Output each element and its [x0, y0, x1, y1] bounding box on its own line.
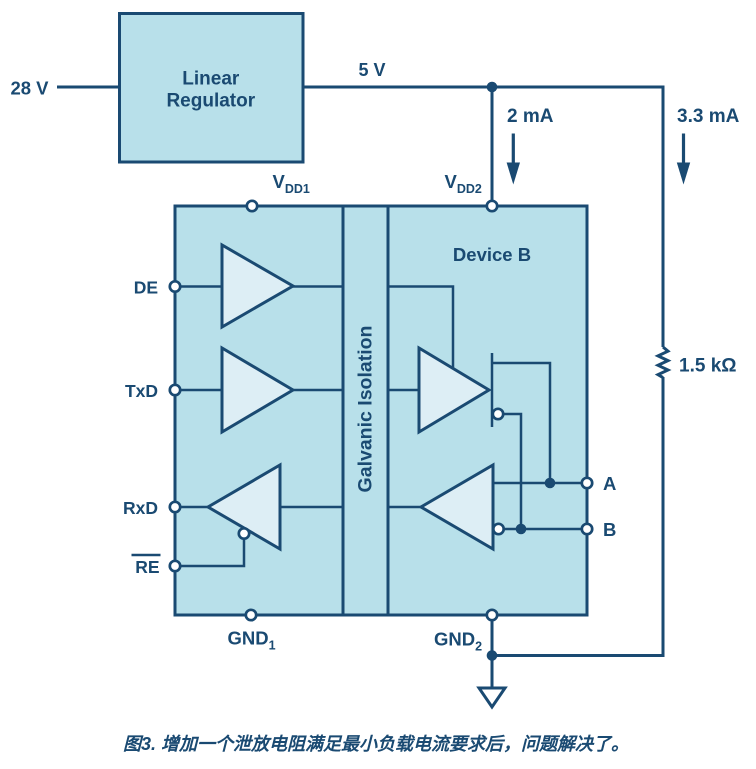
svg-text:1.5 kΩ: 1.5 kΩ — [679, 356, 737, 377]
arrow 2 mA — [507, 134, 520, 185]
bubble RxD enable — [239, 528, 249, 538]
wire barrier to driver enable with drop — [388, 287, 453, 369]
terminal TxD — [170, 385, 180, 395]
wire bleed branch bottom and return to GND2 — [492, 377, 663, 656]
terminal VDD1 — [247, 201, 257, 211]
wire driver Z output drop to B — [504, 414, 522, 529]
svg-text:RE: RE — [135, 557, 159, 577]
terminal DE — [170, 281, 180, 291]
isolator IC body Device B — [175, 206, 587, 615]
wire DE buffer to barrier — [293, 285, 343, 288]
driver right side — [419, 348, 489, 432]
terminal GND1 — [246, 610, 256, 620]
terminal B — [582, 524, 592, 534]
regulator box U1 Linear Regulator — [120, 14, 304, 163]
buffer RxD receiver left — [208, 465, 280, 549]
receiver right side — [421, 465, 493, 549]
svg-text:TxD: TxD — [125, 381, 158, 401]
svg-text:Galvanic Isolation: Galvanic Isolation — [355, 326, 377, 493]
ground symbol — [479, 688, 505, 707]
caption figure 3 — [6, 730, 746, 756]
arrow 3.3 mA — [677, 134, 690, 185]
pin label RE with overline — [132, 555, 161, 577]
svg-text:VDD1: VDD1 — [273, 171, 310, 196]
wire DE pin to buffer — [175, 285, 222, 288]
driver output bar — [491, 353, 494, 427]
svg-text:Device B: Device B — [453, 244, 531, 265]
galvanic isolation barrier right edge — [387, 206, 390, 615]
junction 5V rail — [487, 82, 498, 93]
svg-text:GND1: GND1 — [228, 628, 276, 653]
svg-text:2 mA: 2 mA — [507, 106, 554, 127]
terminal VDD2 — [487, 201, 497, 211]
svg-text:Linear: Linear — [182, 69, 240, 90]
terminal A — [582, 478, 592, 488]
svg-text:B: B — [603, 519, 616, 540]
resistor R1 1.5 kOhm zigzag — [658, 347, 668, 378]
wire receiver A input — [493, 482, 587, 485]
buffer TxD driver left — [222, 348, 293, 432]
junction A net — [545, 478, 556, 489]
wire GND2 to ground — [491, 620, 494, 688]
wire RE pin run and riser to bubble — [175, 539, 244, 566]
wire TxD buffer to barrier — [293, 389, 343, 392]
wire barrier to RxD receiver input — [280, 506, 343, 509]
wire RxD receiver output — [175, 506, 208, 509]
buffer DE driver left — [222, 245, 293, 327]
wire TxD pin to buffer — [175, 389, 222, 392]
wire driver Y output drop to A — [492, 363, 550, 483]
svg-text:3.3 mA: 3.3 mA — [677, 106, 740, 127]
svg-text:VDD2: VDD2 — [445, 171, 482, 196]
galvanic isolation barrier left edge — [342, 206, 345, 615]
wire barrier to driver input — [388, 389, 419, 392]
wire receiver B input — [504, 528, 587, 531]
terminal GND2 — [487, 610, 497, 620]
junction GND2 net — [487, 650, 498, 661]
wire 28V input — [57, 86, 120, 89]
wire 5V rail — [303, 87, 663, 347]
wire receiver output to barrier — [388, 506, 421, 509]
svg-text:Regulator: Regulator — [166, 90, 255, 111]
terminal RE — [170, 561, 180, 571]
terminal RxD — [170, 502, 180, 512]
wire VDD2 drop — [491, 87, 494, 201]
junction B net — [516, 524, 527, 535]
svg-text:GND2: GND2 — [434, 629, 482, 654]
bubble receiver B inverting input — [493, 524, 503, 534]
svg-text:DE: DE — [134, 278, 158, 298]
bubble driver Z inverted output — [493, 409, 503, 419]
svg-text:5 V: 5 V — [359, 60, 386, 80]
svg-text:28 V: 28 V — [10, 78, 49, 99]
svg-text:A: A — [603, 473, 616, 494]
svg-text:RxD: RxD — [123, 498, 158, 518]
